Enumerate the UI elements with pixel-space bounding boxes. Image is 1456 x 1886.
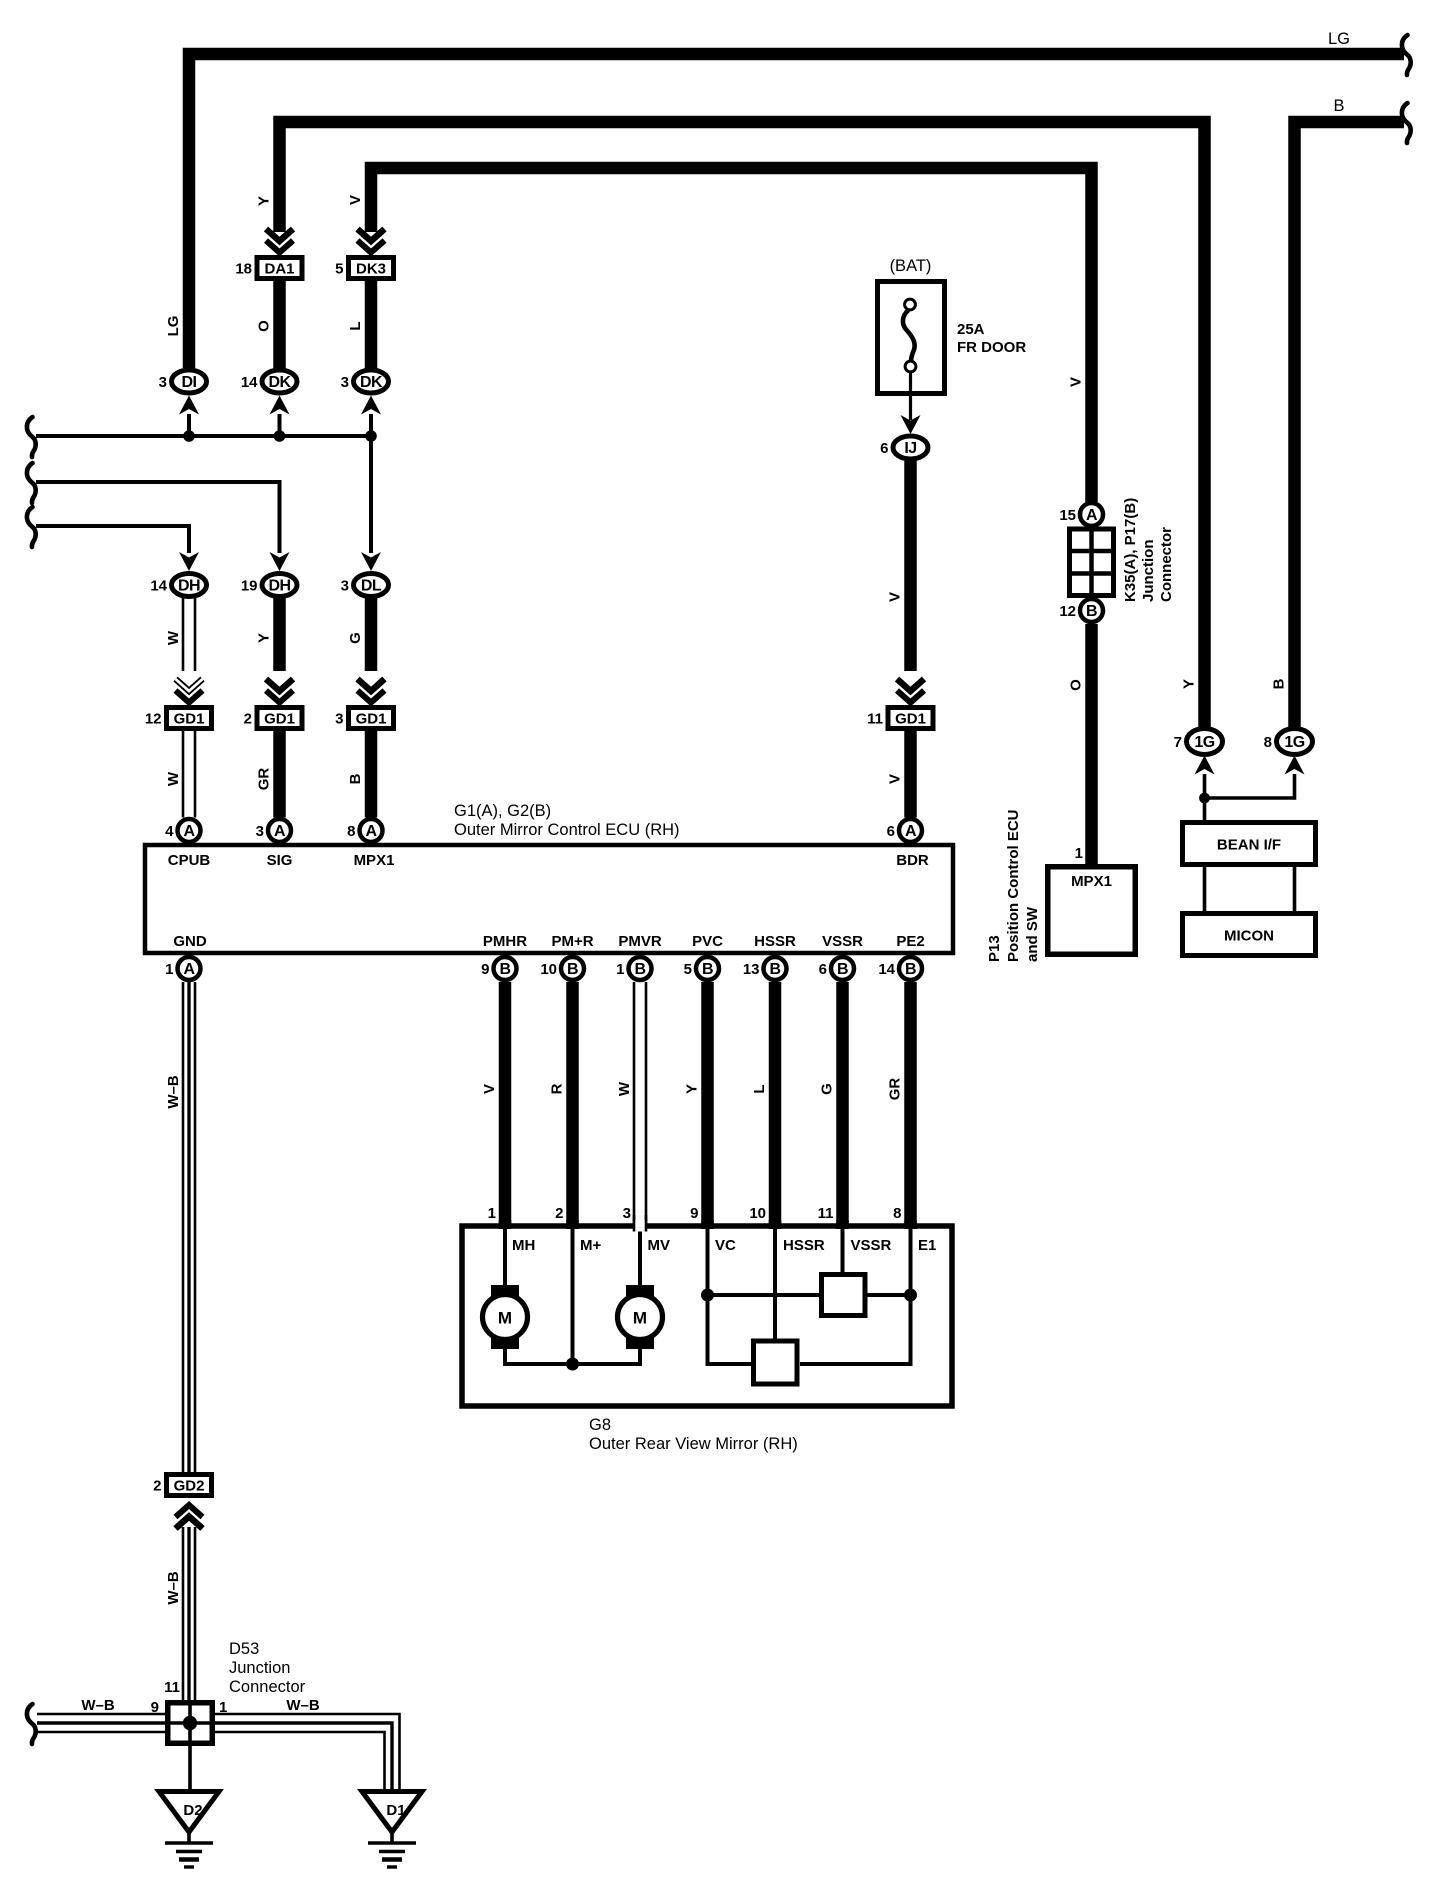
svg-text:B: B — [769, 961, 780, 978]
wire Y horizontal to 1G col — [280, 122, 1205, 729]
svg-text:M+: M+ — [580, 1237, 601, 1254]
junction dot BEAN branch — [1199, 793, 1210, 804]
svg-text:10: 10 — [749, 1205, 766, 1222]
svg-text:PMHR: PMHR — [483, 933, 527, 950]
junction dot E1 — [904, 1289, 917, 1302]
junction dot M+ — [566, 1358, 579, 1371]
svg-text:V: V — [347, 195, 364, 205]
arrow into DH(19) — [270, 552, 290, 571]
svg-text:Outer Rear View Mirror (RH): Outer Rear View Mirror (RH) — [589, 1435, 798, 1453]
connector circle B pin 13 HSSR — [743, 957, 787, 980]
label D53 Junction Connector — [229, 1640, 306, 1696]
connector oval 1G pin 7 — [1174, 729, 1223, 755]
connector oval DH pin 19 — [241, 574, 297, 597]
label K35(A), P17(B) Junction Connector — [1122, 498, 1175, 602]
arrow into 1G(8) — [1285, 756, 1305, 775]
arrow into DH(14) — [179, 552, 199, 571]
svg-text:Connector: Connector — [229, 1678, 306, 1696]
svg-text:W: W — [165, 771, 182, 786]
svg-text:LG: LG — [165, 316, 182, 337]
svg-text:SIG: SIG — [267, 852, 293, 869]
fuse 25A FR DOOR box — [878, 282, 945, 394]
label G8 Outer Rear View Mirror (RH) — [589, 1416, 798, 1453]
wire branch to 1G(8) — [1205, 774, 1295, 798]
break symbol W-B left — [27, 1704, 36, 1744]
connector circle B pin 5 PVC — [684, 957, 719, 980]
wire R (PM+R to G8) — [566, 982, 579, 1229]
wire HSSR drop — [773, 1228, 777, 1340]
svg-text:9: 9 — [481, 961, 489, 978]
svg-text:VSSR: VSSR — [851, 1237, 892, 1254]
svg-text:18: 18 — [235, 261, 252, 278]
svg-text:A: A — [1086, 507, 1098, 524]
svg-text:15: 15 — [1059, 507, 1076, 524]
svg-text:IJ: IJ — [904, 440, 916, 457]
svg-text:GND: GND — [173, 933, 207, 950]
sensor square lower (HSSR) — [754, 1341, 798, 1384]
svg-text:5: 5 — [335, 261, 343, 278]
wire V (PMHR to G8) — [499, 982, 512, 1229]
ground D2 — [159, 1792, 219, 1868]
svg-text:Y: Y — [256, 633, 273, 643]
wire stub VSSR over G8 edge — [836, 1220, 849, 1229]
connector circle B pin 12 (K35) — [1059, 599, 1103, 622]
wire V (IJ to GD1-11) — [904, 461, 917, 671]
wire BEAN to 1G(7) — [1203, 774, 1207, 820]
arrow into DK(14) from below — [270, 396, 290, 415]
svg-text:DK: DK — [360, 374, 383, 391]
svg-text:(BAT): (BAT) — [890, 257, 932, 275]
wire W hollow (GD1 to CPUB) — [183, 731, 195, 818]
svg-text:8: 8 — [1264, 734, 1272, 751]
svg-text:PVC: PVC — [692, 933, 723, 950]
connector oval DK pin 3 — [341, 370, 389, 393]
connector oval DH pin 14 — [150, 574, 206, 597]
svg-text:14: 14 — [878, 961, 895, 978]
svg-text:1G: 1G — [1194, 734, 1214, 751]
connector oval DL pin 3 — [341, 574, 389, 597]
wire thin DL drop from bus row1 — [369, 436, 373, 553]
connector oval DK pin 14 — [241, 370, 297, 393]
svg-text:W–B: W–B — [165, 1571, 182, 1605]
svg-text:1: 1 — [488, 1205, 496, 1222]
svg-text:1G: 1G — [1284, 734, 1304, 751]
break symbol bus row3 — [27, 507, 36, 547]
svg-text:2: 2 — [244, 711, 252, 728]
junction connector K35 grid — [1070, 529, 1114, 596]
wire E1 down to sensor2 — [800, 1295, 911, 1364]
wire B right horizontal — [1295, 122, 1405, 729]
connector DK3 pin 5 — [335, 258, 393, 279]
wire MV to motor M2 — [638, 1232, 642, 1289]
svg-text:Connector: Connector — [1158, 527, 1175, 602]
wire Y (DH19 to GD1) — [273, 598, 286, 671]
svg-text:25A: 25A — [957, 321, 985, 338]
connector GD1 pin 11 — [867, 708, 933, 729]
wire L (DK3 to DK oval) — [365, 281, 378, 370]
wire VC down-right to sensor2 — [708, 1295, 752, 1364]
wire GR (GD1 to SIG) — [273, 731, 286, 818]
svg-text:W–B: W–B — [165, 1075, 182, 1109]
svg-text:B: B — [1086, 603, 1097, 620]
arrow into GD1 (12) — [176, 679, 203, 703]
wire V (GD1-11 to BDR) — [904, 731, 917, 818]
connector oval IJ pin 6 — [880, 436, 928, 459]
svg-text:11: 11 — [867, 711, 883, 728]
wire GR (PE2 to G8) — [904, 982, 917, 1229]
arrow into GD1 (2) — [266, 679, 293, 703]
wire MH to motor M1 — [503, 1228, 507, 1288]
svg-text:1: 1 — [616, 961, 624, 978]
svg-text:3: 3 — [256, 823, 264, 840]
svg-text:MPX1: MPX1 — [354, 852, 395, 869]
svg-text:V: V — [887, 774, 904, 784]
svg-text:B: B — [347, 773, 364, 784]
wire thin bus row3 to DH(14) — [36, 526, 189, 553]
svg-text:GD2: GD2 — [174, 1478, 205, 1495]
svg-text:10: 10 — [540, 961, 557, 978]
svg-text:D1: D1 — [386, 1802, 405, 1819]
arrow into GD2 — [176, 1505, 203, 1529]
svg-text:8: 8 — [347, 823, 355, 840]
label P13 Position Control ECU and SW — [986, 810, 1041, 963]
svg-text:B: B — [702, 961, 713, 978]
wire M+ to junction — [571, 1228, 575, 1364]
wire W-B right bus to D1 — [215, 1714, 400, 1789]
svg-text:D53: D53 — [229, 1640, 259, 1658]
svg-text:VSSR: VSSR — [822, 933, 863, 950]
svg-text:1: 1 — [1075, 845, 1083, 862]
svg-text:MV: MV — [648, 1237, 671, 1254]
svg-text:12: 12 — [145, 711, 162, 728]
svg-text:Y: Y — [256, 196, 273, 206]
break symbol bus row2 — [27, 463, 36, 503]
label G1(A), G2(B) Outer Mirror Control ECU (RH) — [454, 802, 680, 839]
connector GD2 pin 2 — [153, 1475, 211, 1496]
connector circle A pin 4 CPUB — [165, 819, 200, 842]
svg-text:MPX1: MPX1 — [1071, 873, 1112, 890]
svg-text:Y: Y — [684, 1084, 701, 1094]
junction connector D53 — [165, 1700, 215, 1746]
wire O (DA1 to DK oval) — [273, 281, 286, 370]
svg-text:GR: GR — [256, 768, 273, 791]
svg-text:9: 9 — [690, 1205, 698, 1222]
svg-text:B: B — [634, 961, 645, 978]
connector circle A pin 15 (K35) — [1059, 503, 1103, 526]
svg-text:GD1: GD1 — [264, 711, 295, 728]
wire BEAN-MICON right — [1293, 867, 1297, 911]
junction dot VC — [701, 1289, 714, 1302]
break symbol bus row1 — [27, 417, 36, 457]
arrow into DL(3) — [361, 552, 381, 571]
arrow into 1G(7) — [1195, 756, 1215, 775]
svg-text:A: A — [274, 823, 286, 840]
svg-text:GD1: GD1 — [356, 711, 387, 728]
wire V horizontal to K35 — [371, 168, 1092, 502]
block G8 Outer Rear View Mirror — [462, 1226, 952, 1406]
svg-text:14: 14 — [241, 374, 258, 391]
svg-text:B: B — [1333, 97, 1344, 115]
svg-text:HSSR: HSSR — [783, 1237, 825, 1254]
wire VC to sensor1 — [708, 1293, 820, 1297]
connector oval DI pin 3 — [159, 370, 207, 393]
svg-text:3: 3 — [341, 374, 349, 391]
svg-text:PE2: PE2 — [896, 933, 924, 950]
wire thin bus row1 — [36, 434, 371, 438]
wire fuse to IJ — [909, 372, 912, 420]
sensor square upper (VSSR) — [822, 1275, 866, 1316]
break symbol B right end — [1402, 103, 1411, 143]
svg-text:A: A — [183, 961, 195, 978]
svg-text:V: V — [481, 1084, 498, 1094]
svg-text:G1(A), G2(B): G1(A), G2(B) — [454, 802, 551, 820]
svg-text:2: 2 — [555, 1205, 563, 1222]
connector oval 1G pin 8 — [1264, 729, 1313, 755]
svg-text:M: M — [633, 1309, 647, 1328]
svg-text:7: 7 — [1174, 734, 1182, 751]
wire W-B left bus — [37, 1714, 165, 1732]
svg-text:A: A — [905, 823, 917, 840]
wire G (DL to GD1) — [365, 598, 378, 671]
svg-text:MH: MH — [512, 1237, 535, 1254]
svg-text:12: 12 — [1059, 603, 1076, 620]
svg-text:LG: LG — [1328, 30, 1350, 48]
block Outer Mirror Control ECU — [145, 845, 953, 953]
connector GD1 pin 3 — [335, 708, 393, 729]
wire W (PMVR to G8) — [634, 982, 646, 1229]
stub DK3 to bus — [369, 414, 373, 436]
svg-text:DH: DH — [268, 577, 290, 594]
break symbol LG right end — [1402, 35, 1411, 75]
svg-text:3: 3 — [341, 578, 349, 595]
svg-text:B: B — [499, 961, 510, 978]
connector circle A pin 3 SIG — [256, 819, 291, 842]
connector GD1 pin 2 — [244, 708, 302, 729]
connector circle B pin 6 VSSR — [819, 957, 854, 980]
arrow into DK3 — [358, 229, 385, 253]
wire E1 drop — [909, 1228, 913, 1295]
svg-text:13: 13 — [743, 961, 760, 978]
svg-text:O: O — [256, 320, 273, 332]
connector circle A pin 1 GND — [165, 957, 200, 980]
svg-text:B: B — [905, 961, 916, 978]
svg-text:GD1: GD1 — [174, 711, 205, 728]
svg-text:B: B — [1271, 678, 1288, 689]
svg-text:DA1: DA1 — [264, 261, 294, 278]
svg-text:B: B — [567, 961, 578, 978]
arrow into GD1 (11) — [897, 679, 924, 703]
wire L (HSSR to G8) — [769, 982, 782, 1229]
wire O (K35 to MPX1) — [1085, 624, 1098, 866]
svg-text:G8: G8 — [589, 1416, 611, 1434]
svg-text:E1: E1 — [918, 1237, 936, 1254]
svg-text:A: A — [183, 823, 195, 840]
wire W stub over G8 edge — [633, 1215, 647, 1232]
arrow into DK(3) from below — [361, 396, 381, 415]
svg-text:W: W — [616, 1081, 633, 1096]
arrow into GD1 (3) — [358, 679, 385, 703]
svg-text:DI: DI — [182, 374, 197, 391]
svg-text:Position Control ECU: Position Control ECU — [1005, 810, 1022, 963]
connector circle B pin 14 PE2 — [878, 957, 922, 980]
svg-text:4: 4 — [165, 823, 174, 840]
connector DA1 pin 18 — [235, 258, 302, 279]
svg-text:G: G — [347, 632, 364, 644]
connector circle B pin 9 PMHR — [481, 957, 516, 980]
connector circle B pin 10 PM+R — [540, 957, 584, 980]
wire VSSR drop — [841, 1228, 845, 1273]
fuse element — [903, 299, 916, 372]
svg-text:6: 6 — [880, 440, 888, 457]
wire W-B (GND to GD2) — [183, 982, 195, 1474]
svg-text:DK: DK — [268, 374, 291, 391]
wire Y (PVC to G8) — [701, 982, 714, 1229]
svg-text:14: 14 — [150, 578, 167, 595]
svg-text:MICON: MICON — [1224, 928, 1274, 945]
svg-text:8: 8 — [893, 1205, 901, 1222]
wire VC drop — [706, 1228, 710, 1295]
svg-text:W–B: W–B — [81, 1697, 115, 1714]
svg-text:O: O — [1068, 679, 1085, 691]
stub DK14 to bus — [278, 414, 282, 436]
wire stub PM+R over G8 edge — [566, 1220, 579, 1229]
motor M2 — [618, 1285, 663, 1349]
svg-text:DH: DH — [178, 577, 200, 594]
block BEAN I/F — [1183, 823, 1316, 865]
wire G (VSSR to G8) — [836, 982, 849, 1229]
svg-text:Y: Y — [1181, 679, 1198, 689]
ground D1 — [362, 1792, 422, 1868]
svg-text:3: 3 — [159, 374, 167, 391]
svg-text:Junction: Junction — [229, 1659, 290, 1677]
svg-text:Outer Mirror Control ECU (RH): Outer Mirror Control ECU (RH) — [454, 821, 680, 839]
svg-text:1: 1 — [165, 961, 173, 978]
block MICON — [1183, 914, 1316, 956]
svg-text:2: 2 — [153, 1478, 161, 1495]
wire LG (main horizontal+vertical, col A) — [189, 54, 1404, 368]
svg-text:L: L — [751, 1084, 768, 1093]
motor M1 — [483, 1285, 528, 1349]
svg-text:5: 5 — [684, 961, 692, 978]
svg-text:DK3: DK3 — [356, 261, 386, 278]
svg-text:VC: VC — [715, 1237, 736, 1254]
svg-text:PM+R: PM+R — [551, 933, 593, 950]
connector circle B pin 1 PMVR — [616, 957, 651, 980]
arrow into DA1 — [266, 229, 293, 253]
svg-text:W: W — [165, 630, 182, 645]
svg-text:FR DOOR: FR DOOR — [957, 339, 1026, 356]
svg-text:G: G — [819, 1083, 836, 1095]
svg-text:HSSR: HSSR — [754, 933, 796, 950]
svg-text:3: 3 — [335, 711, 343, 728]
junction dot row1 col B — [274, 430, 286, 442]
svg-text:6: 6 — [887, 823, 895, 840]
arrow into DI from below — [179, 396, 199, 415]
svg-text:6: 6 — [819, 961, 827, 978]
connector circle A pin 8 MPX1 — [347, 819, 382, 842]
svg-text:CPUB: CPUB — [168, 852, 211, 869]
wire thin bus row2 to DH(19) — [36, 482, 280, 553]
svg-text:DL: DL — [361, 577, 382, 594]
svg-text:11: 11 — [164, 1679, 180, 1696]
wire W-B (GD2 to D53) — [183, 1527, 195, 1700]
stub DI to bus — [187, 414, 191, 436]
svg-text:V: V — [887, 592, 904, 602]
svg-text:D2: D2 — [183, 1802, 202, 1819]
svg-text:M: M — [498, 1309, 512, 1328]
connector circle A pin 6 BDR — [887, 819, 922, 842]
wire BEAN-MICON left — [1203, 867, 1207, 911]
wire stub PMHR over G8 edge — [499, 1220, 512, 1229]
arrow into IJ — [901, 415, 921, 434]
wire sensor1 to E1 — [867, 1293, 911, 1297]
block MPX1 — [1048, 867, 1136, 955]
wire stub PVC over G8 edge — [701, 1220, 714, 1229]
svg-text:A: A — [365, 823, 377, 840]
svg-text:W–B: W–B — [286, 1697, 320, 1714]
svg-text:L: L — [347, 321, 364, 330]
svg-text:B: B — [837, 961, 848, 978]
junction dot row1 col C — [365, 430, 377, 442]
wire W hollow (DH14 to GD1) — [183, 598, 195, 671]
svg-text:3: 3 — [623, 1205, 631, 1222]
junction dot row1 col A — [183, 430, 195, 442]
svg-text:K35(A), P17(B): K35(A), P17(B) — [1122, 498, 1139, 602]
wire stub PE2 over G8 edge — [904, 1220, 917, 1229]
svg-text:and SW: and SW — [1024, 906, 1041, 962]
svg-text:19: 19 — [241, 578, 258, 595]
wire B (GD1 to MPX1) — [365, 731, 378, 818]
svg-text:Junction: Junction — [1140, 540, 1157, 603]
connector GD1 pin 12 — [145, 708, 212, 729]
svg-text:11: 11 — [818, 1205, 834, 1222]
svg-text:GD1: GD1 — [895, 711, 926, 728]
svg-text:V: V — [1068, 377, 1085, 387]
svg-text:P13: P13 — [986, 935, 1003, 962]
svg-text:GR: GR — [887, 1078, 904, 1101]
svg-text:BEAN I/F: BEAN I/F — [1217, 837, 1281, 854]
svg-text:PMVR: PMVR — [618, 933, 662, 950]
svg-text:BDR: BDR — [896, 852, 929, 869]
wire motor bottoms bus — [505, 1347, 640, 1364]
wire stub HSSR over G8 edge — [769, 1220, 782, 1229]
wire D53 to D2 — [188, 1746, 192, 1789]
svg-text:R: R — [549, 1083, 566, 1094]
